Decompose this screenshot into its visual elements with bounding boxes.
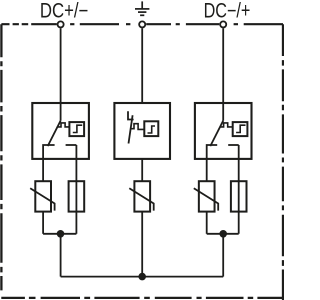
- indicator step glyph U3: [236, 125, 245, 132]
- indicator square U3: [233, 122, 248, 136]
- contact L-lead U2: [128, 111, 134, 119]
- wire: right branch join: [207, 233, 239, 235]
- varistor R3 (right branch): [199, 181, 215, 211]
- switch blade U2: [129, 115, 133, 143]
- module box U3 (right SCI disconnector): [195, 103, 252, 159]
- fuse F2 (right branch): [231, 181, 247, 211]
- enclosure boundary top edge (dash-dot border): [1, 23, 283, 25]
- enclosure boundary right edge (dash-dot border): [282, 24, 284, 300]
- junction dot right branch: [219, 230, 227, 238]
- module box U1 (left SCI disconnector): [32, 103, 89, 159]
- terminal DC+/- (node): [58, 21, 64, 27]
- wire: varistor R3 bottom lead: [206, 212, 208, 234]
- contact stub right U3: [228, 144, 239, 146]
- svg-text:DC+/−: DC+/−: [40, 0, 89, 23]
- indicator link U2 (step wire): [131, 124, 145, 130]
- indicator step glyph U1: [73, 125, 82, 132]
- indicator link U3 (step wire): [220, 123, 233, 127]
- wire: middle module to varistor R2: [141, 158, 143, 181]
- wire: DC-/+ terminal down into right module: [222, 28, 224, 120]
- switch blade U1: [48, 121, 61, 146]
- varistor R3 diagonal: [194, 188, 218, 210]
- contact stub left U3: [207, 145, 218, 181]
- ground symbol (earth): [135, 1, 149, 15]
- wire: bottom bus: [61, 276, 224, 278]
- indicator square U2: [144, 121, 158, 136]
- contact stub left U1: [43, 145, 55, 181]
- switch blade U3: [210, 121, 223, 146]
- varistor R2 diagonal: [129, 188, 153, 210]
- fuse F1 (left branch): [69, 181, 85, 211]
- svg-text:DC−/+: DC−/+: [204, 0, 251, 23]
- varistor R1 (left branch): [35, 181, 51, 211]
- varistor R2 (middle branch): [134, 181, 150, 211]
- indicator step glyph U2: [148, 126, 156, 133]
- enclosure boundary bottom edge (dash-dot border): [1, 297, 284, 299]
- wire: left branch join: [43, 233, 76, 235]
- junction dot left branch: [57, 230, 65, 238]
- junction dot bus center: [138, 273, 146, 281]
- wire: earth terminal down to middle module: [141, 28, 143, 103]
- indicator square U1: [69, 122, 84, 136]
- wire: left branch drop to bus: [60, 234, 62, 277]
- wire: right branch drop to bus: [222, 234, 224, 277]
- module box U2 (middle disconnector): [114, 103, 170, 159]
- wire: varistor R1 bottom lead: [42, 212, 44, 234]
- varistor R1 diagonal: [30, 188, 54, 210]
- earth terminal (node): [139, 21, 145, 27]
- enclosure boundary left edge (dash-dot border): [0, 24, 2, 290]
- wire: fuse F2 through-lead: [238, 145, 240, 234]
- wire: fuse F1 through-lead: [75, 145, 77, 234]
- wire: DC+/- terminal down into left module: [60, 28, 62, 120]
- contact stub right U1: [66, 144, 77, 146]
- wire: middle branch drop to bus: [141, 212, 143, 277]
- indicator link U1 (step wire): [57, 123, 70, 127]
- terminal DC-/+ (node): [220, 21, 226, 27]
